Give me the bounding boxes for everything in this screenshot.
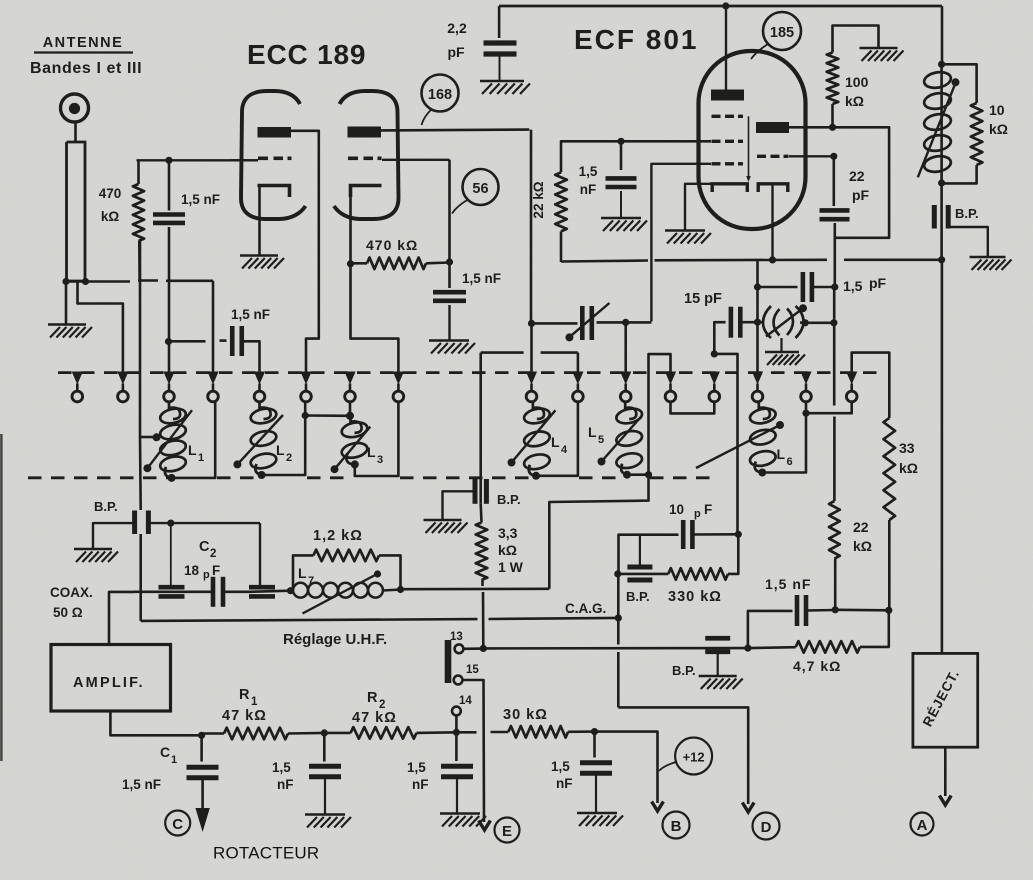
terminal circle D <box>753 813 780 840</box>
wire series cap to contact 259 <box>243 341 260 372</box>
label 470k grid <box>99 186 122 224</box>
inductor L3 <box>331 402 371 473</box>
tube label ECC 189 <box>247 39 366 70</box>
feedthrough capacitor B.P. right <box>934 205 988 257</box>
wire amplif output <box>110 711 201 736</box>
node L3 top <box>346 412 354 420</box>
feedthrough capacitor B.P. left <box>135 511 149 621</box>
node trimmer link junction <box>830 319 837 326</box>
ground trimmer <box>765 352 805 365</box>
anode V2 triode <box>756 122 789 133</box>
cathode V1b <box>351 186 382 198</box>
label 470k osc <box>366 237 418 253</box>
tube label ECF 801 <box>574 24 699 55</box>
ground V1a cathode <box>240 256 284 269</box>
node grid/1.5nF junction <box>165 157 172 164</box>
label 1.5nF antenna <box>181 192 220 207</box>
inductor L7 <box>293 570 400 613</box>
wire junction to series cap <box>169 339 227 342</box>
node 470k right <box>446 258 453 265</box>
node 100k bottom on anode line <box>829 124 836 131</box>
label Reglage UHF <box>283 631 387 648</box>
wire cathode rail <box>561 260 942 262</box>
label 33k <box>899 440 918 476</box>
label L6 <box>777 446 793 468</box>
switch contact S13 <box>709 372 720 402</box>
label 1.5nF agc <box>765 576 811 592</box>
wire g2 rail <box>561 141 711 172</box>
switch contact S16 <box>846 372 857 402</box>
node 1.5nF agc right <box>832 606 839 613</box>
label 1.2k <box>313 528 363 544</box>
label 22k screen <box>531 181 546 218</box>
resistor 3.3k 1W <box>476 504 488 649</box>
resistor 4.7k <box>748 610 889 652</box>
feedthrough capacitor B.P. filter <box>627 535 652 580</box>
node L6 return tap <box>802 410 809 417</box>
feedthrough capacitor UHF 2 <box>249 587 291 596</box>
tube V1b envelope (ECC189 b) <box>334 91 399 219</box>
switch contact S1 <box>72 372 83 402</box>
switch contact 15 <box>454 676 463 685</box>
wire hop bar to contact 577 <box>481 353 578 372</box>
terminal arrow D <box>742 803 754 813</box>
label L1 <box>188 442 204 464</box>
resistor 100k <box>827 26 879 128</box>
switch contact S8 <box>393 372 404 402</box>
wire L1 return <box>172 402 216 478</box>
node 15pF junction <box>711 350 718 357</box>
wire antenna bus right (hop over 470k lead) <box>66 281 213 282</box>
label B.P. left <box>94 499 118 514</box>
trimmer capacitor osc tank <box>758 304 808 351</box>
wire osc anode drop <box>530 130 533 324</box>
resistor 10k <box>942 64 983 183</box>
wire trimmer stem 1 <box>170 523 172 587</box>
wire g1 pentode lead <box>651 164 711 322</box>
wire trimmer node drop (hop at L6 tie) <box>833 287 836 501</box>
terminal circle B <box>663 812 690 839</box>
grid V1b <box>348 157 382 161</box>
switch contact S9 <box>526 372 537 402</box>
wire contact 851 to 33k <box>852 353 890 418</box>
wire HT rail top <box>499 5 942 8</box>
capacitor 1.5nF osc grid <box>433 262 466 340</box>
grid V2 triode <box>757 155 789 158</box>
cathode V2 triode <box>758 184 788 192</box>
feedthrough capacitor UHF 1 <box>134 587 213 596</box>
capacitor 15pF <box>714 307 757 354</box>
ground 1.5nF osc grid <box>429 341 475 354</box>
node trimmer left <box>528 320 535 327</box>
inductor L5 <box>598 402 644 479</box>
wire +12 feed to B <box>595 732 658 803</box>
box REJECT <box>913 653 978 747</box>
ground B.P. left <box>74 549 118 562</box>
label L4 <box>551 434 568 456</box>
wire V1a grid lead <box>231 159 259 161</box>
capacitor 1.5nF screen <box>606 141 637 217</box>
resistor 470k grid <box>133 160 144 280</box>
switch contact S4 <box>207 372 218 402</box>
ground 100k top <box>860 48 904 61</box>
label 22pF <box>849 168 870 203</box>
label L3 <box>367 444 383 466</box>
resistor R1 47k <box>202 728 325 740</box>
capacitor 1.5nF decoup2 <box>441 732 473 813</box>
wire contact758 column <box>756 260 759 372</box>
node 470k left <box>347 260 354 267</box>
node triode cathode on rail <box>769 256 776 263</box>
node pentode anode on rail <box>722 2 729 9</box>
terminal arrow C <box>195 808 209 832</box>
wire V1a cathode to ground <box>258 186 261 256</box>
wire coil bottom down <box>940 183 943 259</box>
wire osc drop to contact 533 <box>530 323 533 372</box>
switch contact S15 <box>800 372 811 402</box>
ground decoup2 <box>440 814 486 827</box>
label 4.7k <box>793 658 841 674</box>
grid g3 V2 <box>712 115 744 118</box>
node rad trimmer left <box>754 319 761 326</box>
grid g1 V2 pentode <box>712 162 744 165</box>
wire feeder to ground <box>65 282 68 325</box>
label B.P. agc <box>672 663 696 678</box>
ground B.P. right <box>970 257 1012 270</box>
rotor bar wafer switch <box>445 640 452 683</box>
wire 1.5nF junction to contact 169 <box>168 342 171 373</box>
node 30k right <box>591 728 598 735</box>
wire osc output to rejector <box>941 260 944 654</box>
capacitor 1.5nF agc <box>797 595 835 626</box>
terminal circle C <box>165 811 190 836</box>
node rad trimmer right <box>802 319 809 326</box>
rotor dashed line upper <box>58 371 886 374</box>
switch contact 13 <box>455 644 464 653</box>
capacitor 1.5pF <box>758 272 835 302</box>
switch contact S11 <box>620 372 631 402</box>
label 22k osc <box>853 519 872 554</box>
switch contact S2 <box>117 372 128 402</box>
wire antenna jog to contact 123 <box>78 282 123 373</box>
switch contact S10 <box>572 372 583 402</box>
wire triode cathode to rail <box>771 184 773 260</box>
wire L3 return <box>355 402 399 476</box>
wire contact15 to +12 feed <box>463 680 484 822</box>
node 1.5pF right <box>831 283 838 290</box>
label 1.5nF decoup3 <box>551 759 573 791</box>
resistor 1.2k damping <box>293 550 401 590</box>
wire node13 up to 1.5nF <box>748 611 793 648</box>
capacitor 2.2pF <box>484 6 517 81</box>
anode V2 pentode <box>711 90 744 101</box>
wire L1 tap <box>140 433 161 441</box>
wire agc filter frame <box>619 535 679 574</box>
ground V2 pentode cathode <box>665 231 711 244</box>
wire 15pF node to 10pF loop <box>714 354 737 534</box>
ground B.P. mid <box>424 520 468 533</box>
wire V1b anode lead to osc section <box>381 128 529 131</box>
pin label 13 <box>450 631 463 643</box>
grid g2 V2 <box>712 140 744 143</box>
label C1 value <box>122 777 161 792</box>
wire L2-L3 link <box>305 414 350 417</box>
trimmer capacitor osc coupling <box>532 303 652 341</box>
capacitor 22pF <box>820 156 850 287</box>
label 30k <box>503 707 548 723</box>
capacitor 1.5nF decoup3 <box>580 732 612 813</box>
callout circle 185 <box>751 12 801 59</box>
node L7 left <box>287 587 294 594</box>
node rail to reject feed <box>938 256 945 263</box>
label 10pF <box>669 502 712 520</box>
node 33k bottom <box>885 607 892 614</box>
node L7 right <box>397 586 404 593</box>
wire V1b cathode jog to contact 398 <box>351 264 399 372</box>
wire contacts 670-714 tie <box>671 402 715 413</box>
node 3.3k bottom <box>480 645 487 652</box>
wire trimmer branch to contact 625 <box>624 322 627 372</box>
label 330k <box>668 589 722 605</box>
label 1.5nF decoup1 <box>272 760 294 792</box>
capacitor 1.5nF decoup1 <box>309 733 341 814</box>
capacitor C1 1.5nF <box>187 735 219 815</box>
node trimmer right branch <box>622 319 629 326</box>
wire L2 return <box>262 402 306 475</box>
wire B.P. left to ground <box>93 523 133 548</box>
wire V2 pentode anode lead <box>725 6 727 90</box>
callout circle 56 <box>452 169 499 214</box>
switch contact S5 <box>254 372 265 402</box>
switch contact 14 <box>452 707 461 716</box>
wire contact13 to node rail <box>464 647 484 650</box>
label COAX 50 <box>50 585 93 620</box>
wire osc tank bus <box>549 354 670 589</box>
rotor dashed line lower <box>28 476 712 479</box>
feedthrough capacitor B.P. agc <box>705 638 730 675</box>
wire L7 output rail <box>401 587 550 590</box>
wire L5 return <box>627 473 649 476</box>
wire pentode cathode to ground <box>685 184 711 230</box>
wire V1a anode lead <box>291 131 319 372</box>
resistor R2 47k <box>324 727 456 739</box>
switch contact S7 <box>344 372 355 402</box>
node C.A.G. junction <box>615 614 622 621</box>
wire V2 triode grid lead <box>789 155 834 157</box>
node g2/1.5nF junction <box>617 138 624 145</box>
label C.A.G. <box>565 601 606 616</box>
caption ROTACTEUR <box>213 844 319 863</box>
label ANTENNE <box>34 35 133 53</box>
capacitor C2 18pF <box>213 577 250 607</box>
terminal arrow A <box>939 796 951 806</box>
wire node13 rail <box>483 647 748 650</box>
terminal arrow B <box>652 802 664 812</box>
node coil top <box>938 61 945 68</box>
node R1-R2 junction <box>321 729 328 736</box>
node 13-rail / 1.5nF <box>744 645 751 652</box>
wire agc filter to C.A.G. node <box>617 574 620 618</box>
label 2.2pF <box>447 20 467 60</box>
box AMPLIF <box>51 645 171 712</box>
feedthrough capacitor B.P. mid <box>475 479 486 504</box>
label 1.5pF <box>843 275 887 294</box>
wire C.A.G. rail <box>141 618 619 621</box>
capacitor 1.5nF series <box>231 307 270 356</box>
wire mid column upper <box>479 353 482 504</box>
label C2 <box>184 539 220 581</box>
wire L6 return <box>762 402 806 473</box>
wire trimmer right link <box>805 321 834 324</box>
cathode V2 pentode <box>712 184 747 192</box>
wire reject output <box>944 747 947 796</box>
wire L6 tie to contact 851 <box>806 402 852 413</box>
anode V1b <box>348 127 382 138</box>
anode V1a <box>258 127 292 138</box>
cathode V1a <box>258 186 290 198</box>
resistor 30k <box>491 726 595 738</box>
wire anode loop to 22pF bottom <box>835 127 889 238</box>
wire V1b grid lead <box>382 159 450 161</box>
inductor L4 <box>508 402 556 480</box>
node contact14 junction <box>453 729 460 736</box>
antenna connector J1 <box>61 94 89 122</box>
node L5 return junction <box>645 471 652 478</box>
resistor 330k <box>619 534 739 579</box>
label B.P. filter <box>626 589 650 604</box>
label 1.5nF screen <box>579 164 598 197</box>
terminal arrow E <box>479 821 491 831</box>
label L7 <box>298 565 314 587</box>
pin label 14 <box>459 695 472 707</box>
tube V2 envelope (ECF801) <box>699 51 806 229</box>
wire agc to D <box>618 618 748 804</box>
resistor 22k osc <box>829 501 840 610</box>
terminal circle E <box>495 818 520 843</box>
label 10k <box>989 102 1008 137</box>
label Bandes I et III <box>30 60 142 77</box>
callout circle +12 <box>659 738 712 775</box>
node L2 return tap <box>302 412 309 419</box>
node agc filter left <box>614 570 621 577</box>
inductor L6 <box>696 402 784 477</box>
resistor 470k osc <box>351 258 450 270</box>
ground decoup1 <box>305 815 351 828</box>
node B.P. net tap <box>167 520 174 527</box>
wire B.P. mid to ground <box>443 491 474 519</box>
label 15pF <box>684 291 722 307</box>
wire contact14 stem <box>455 715 458 732</box>
terminal circle A <box>911 813 934 836</box>
node triode grid/22pF <box>830 153 837 160</box>
inductor osc transformer <box>918 64 960 183</box>
resistor 33k <box>884 418 896 610</box>
switch contact S6 <box>300 372 311 402</box>
wire V2 triode anode lead <box>789 126 886 129</box>
capacitor 1.5nF antenna <box>153 160 185 341</box>
label R1 <box>222 687 267 724</box>
label 1.5nF osc grid <box>462 271 501 286</box>
wire 1.5nF right to 33k node <box>835 608 889 611</box>
antenna feeder element <box>67 142 86 281</box>
label B.P. right <box>955 206 979 221</box>
wire B.P. to C2 network <box>151 522 261 524</box>
ground B.P. agc <box>699 676 743 689</box>
label L2 <box>276 442 292 464</box>
capacitor 10pF <box>683 520 738 549</box>
scan artifact left margin <box>0 434 2 761</box>
wire antenna bus drop to contact 213 <box>212 281 215 372</box>
inductor L2 <box>233 402 283 479</box>
ground 1.5nF screen <box>601 218 647 231</box>
wire g3 to cathode link <box>746 116 751 182</box>
label 3.3k 1W <box>498 525 524 575</box>
wire grid line to 1.5nF <box>137 159 259 161</box>
wire L4 return <box>536 402 578 476</box>
inductor L1 <box>143 402 192 482</box>
ground decoup3 <box>577 813 623 826</box>
switch contact S3 <box>163 372 174 402</box>
node C1 junction <box>198 732 205 739</box>
wire trimmer stem 2 <box>259 523 261 587</box>
tube V1a envelope (ECC189 a) <box>241 91 306 219</box>
wire V1b cathode lead <box>349 186 352 264</box>
node 1.5nF bottom junction <box>165 338 172 345</box>
callout circle 168 <box>422 75 459 126</box>
wire rail hop to 30k <box>456 731 476 734</box>
grid V1a <box>258 157 292 161</box>
label L5 <box>588 424 604 446</box>
node 10pF right <box>735 531 742 538</box>
ground antenna <box>48 325 92 338</box>
label R2 <box>352 690 397 726</box>
ground 2.2pF <box>480 81 530 94</box>
node coil bottom <box>938 179 945 186</box>
label 100k <box>845 74 869 109</box>
wire grid down to 470k right <box>448 160 451 262</box>
node antenna feeder bottom <box>62 278 89 285</box>
node 1.5pF left <box>754 283 761 290</box>
label 1.5nF decoup2 <box>407 760 429 792</box>
label C1 <box>160 744 177 766</box>
wire antenna lead down <box>74 122 77 142</box>
label B.P. mid <box>497 492 521 507</box>
switch contact S14 <box>752 372 763 402</box>
wire agc column upper <box>139 241 142 511</box>
resistor 22k screen <box>555 172 567 262</box>
pin label 15 <box>466 664 479 676</box>
wire rail corner down to coil <box>941 6 944 64</box>
wire coax input <box>109 592 134 645</box>
switch contact S12 <box>665 372 676 402</box>
